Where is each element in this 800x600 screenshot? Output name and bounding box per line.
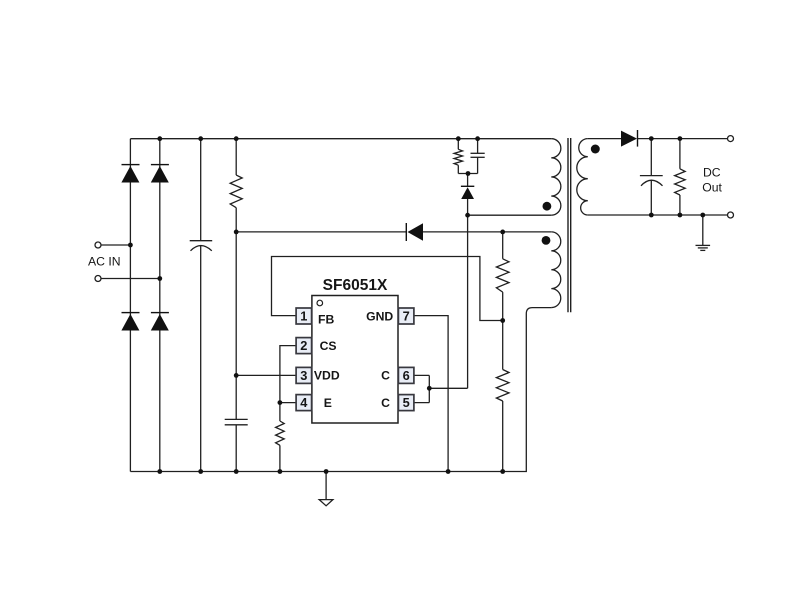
resistor R3 divider upper [496,232,509,321]
wire: snubber bottom bar [458,173,477,175]
capacitor C1 bulk electrolytic [190,139,213,472]
terminal: DC output negative [728,212,734,218]
terminal: DC output positive [728,136,734,142]
wire: output positive [638,138,728,140]
svg-text:3: 3 [300,368,307,383]
svg-text:7: 7 [403,309,410,324]
wire: VDD rail left of diode [236,231,406,233]
diode D1 bridge top-left [121,164,139,183]
svg-text:AC IN: AC IN [88,255,121,269]
pin box 2 [296,338,312,354]
pin box 5 [398,395,414,411]
capacitor C4 VDD [225,419,248,471]
wire: E pin4 [280,402,296,404]
IC U1 pin1 indicator [317,300,323,306]
svg-text:DC: DC [703,166,721,180]
wire: AC input line top [101,244,130,246]
wire: AC input line bottom [101,278,160,280]
pin box 4 [296,395,312,411]
ground: earth on output [696,215,711,250]
diode D4 bridge bottom-right [151,312,169,331]
svg-text:SF6051X: SF6051X [323,277,388,294]
terminal: AC input lower [95,276,101,282]
op IC U1 SF6051X body [312,296,398,424]
svg-text:C: C [381,396,390,410]
transformer T1 core [568,138,571,312]
diode D5 VDD rectifier (points left) [406,223,423,241]
wire: VDD vertical feed [235,232,237,420]
transformer T1 primary winding [551,139,561,215]
wire: bridge left leg [129,139,131,472]
pin box 6 [398,367,414,383]
resistor R2 snubber [454,139,462,174]
wire: VDD pin3 [236,374,296,376]
wire: GND pin7 to bottom rail [413,316,448,472]
capacitor C3 output electrolytic [640,139,663,215]
terminal: AC input upper [95,242,101,248]
wire: pin5 [413,402,429,404]
wire: FB loop pin1 [272,257,503,321]
diode D2 bridge top-right [151,164,169,183]
resistor R1 startup [230,139,242,232]
svg-text:E: E [324,396,332,410]
resistor R6 output load [675,139,686,215]
transformer T1 primary phase dot [543,202,552,211]
wire: bridge right leg [159,139,161,472]
svg-text:Out: Out [702,181,722,195]
wire: secondary top lead [588,138,621,140]
diode D6 clamp zener [461,174,474,216]
wire: pin5-pin6 link [428,375,430,402]
pin box 7 [398,308,414,324]
ground: chassis arrow [319,472,333,506]
diode D3 bridge bottom-left [121,312,139,331]
svg-text:CS: CS [320,339,337,353]
wire: bottom rail and aux winding return [130,308,551,472]
svg-text:1: 1 [300,309,307,324]
diode D7 output rectifier [621,130,638,147]
svg-text:5: 5 [403,395,410,410]
wire: top HV rail [130,138,551,140]
capacitor C2 snubber [471,139,485,174]
transformer T1 secondary winding [577,139,588,215]
svg-text:VDD: VDD [314,369,340,383]
svg-text:2: 2 [300,338,307,353]
transformer T1 aux winding [551,232,560,308]
wire: VDD rail right / aux winding top lead [423,231,551,233]
wire: drain vertical to primary [467,215,469,388]
svg-text:C: C [381,369,390,383]
transformer T1 secondary phase dot [591,145,600,154]
wire: primary bottom lead [468,214,552,216]
label DC Out [702,166,722,195]
wire: pin6 [413,374,429,376]
resistor R5 sense on pin E [276,403,285,472]
svg-text:FB: FB [318,313,334,327]
wire: drain stub [429,387,467,389]
pin box 1 [296,308,312,324]
wire: secondary bottom lead / output negative [588,214,728,216]
resistor R4 divider lower [496,321,509,472]
svg-text:GND: GND [366,310,393,324]
pin box 3 [296,367,312,383]
svg-text:6: 6 [403,368,410,383]
svg-text:4: 4 [300,395,308,410]
wire: CS pin2 [280,346,296,403]
transformer T1 aux phase dot [542,236,551,245]
